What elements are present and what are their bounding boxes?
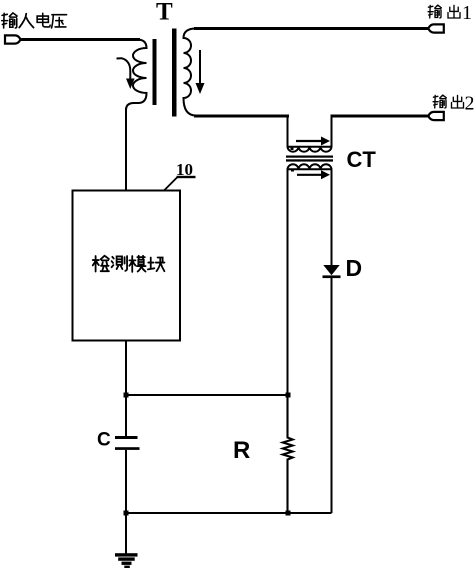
label 输出1 (428, 5, 460, 18)
wire CT bottom-left down to node (287, 171, 289, 394)
detection module box U10 (73, 191, 181, 341)
wire diode to bottom (331, 278, 333, 513)
label 检测模块 (detection module) (93, 256, 165, 272)
wire CT to output2 (331, 115, 431, 118)
svg-text:D: D (346, 255, 363, 281)
wire output1 (194, 27, 430, 30)
wire bottom rail (125, 512, 332, 514)
junction bottom right (286, 511, 291, 516)
capacitor C plates (115, 436, 138, 439)
ground (115, 553, 138, 556)
output2 terminal (428, 112, 444, 120)
arrow secondary current (down) (199, 50, 201, 84)
label 输出2 (433, 95, 463, 108)
wire input lead (20, 38, 140, 41)
polarity dot top (291, 147, 294, 150)
transformer T secondary winding (184, 29, 197, 116)
junction bottom left (124, 511, 129, 516)
CT secondary winding (bottom) (288, 164, 332, 173)
svg-text:1: 1 (462, 2, 472, 24)
wire secondary bottom to CT (194, 115, 289, 118)
junction node right (286, 393, 291, 398)
wire CT bottom-right down to diode (331, 171, 333, 266)
transformer core (153, 39, 157, 105)
polarity dot bottom (291, 169, 294, 172)
wire CT right riser (331, 115, 333, 145)
arrow primary current (curved) (117, 58, 131, 80)
leader line for 10 (165, 178, 178, 191)
resistor R (283, 396, 293, 513)
arrow CT bottom (297, 174, 322, 176)
svg-text:2: 2 (465, 92, 474, 114)
wire node row to R branch (125, 394, 289, 396)
output1 terminal (428, 24, 444, 32)
junction node left (124, 393, 129, 398)
svg-text:CT: CT (347, 147, 377, 172)
wire primary bottom to module (125, 108, 127, 191)
transformer T primary winding (126, 40, 147, 116)
label 输入电压 (input voltage) (2, 13, 67, 28)
wire module bottom down (125, 341, 127, 437)
wire CT left riser (287, 115, 289, 145)
diode D (323, 265, 339, 275)
svg-text:R: R (233, 437, 250, 464)
CT primary winding (top) (288, 143, 332, 152)
svg-text:T: T (156, 0, 173, 26)
wire capacitor to bottom (125, 450, 127, 514)
input terminal (5, 35, 21, 43)
wire to ground (125, 513, 127, 554)
svg-text:C: C (97, 430, 111, 451)
arrow CT top (296, 140, 322, 142)
CT core (286, 156, 333, 158)
